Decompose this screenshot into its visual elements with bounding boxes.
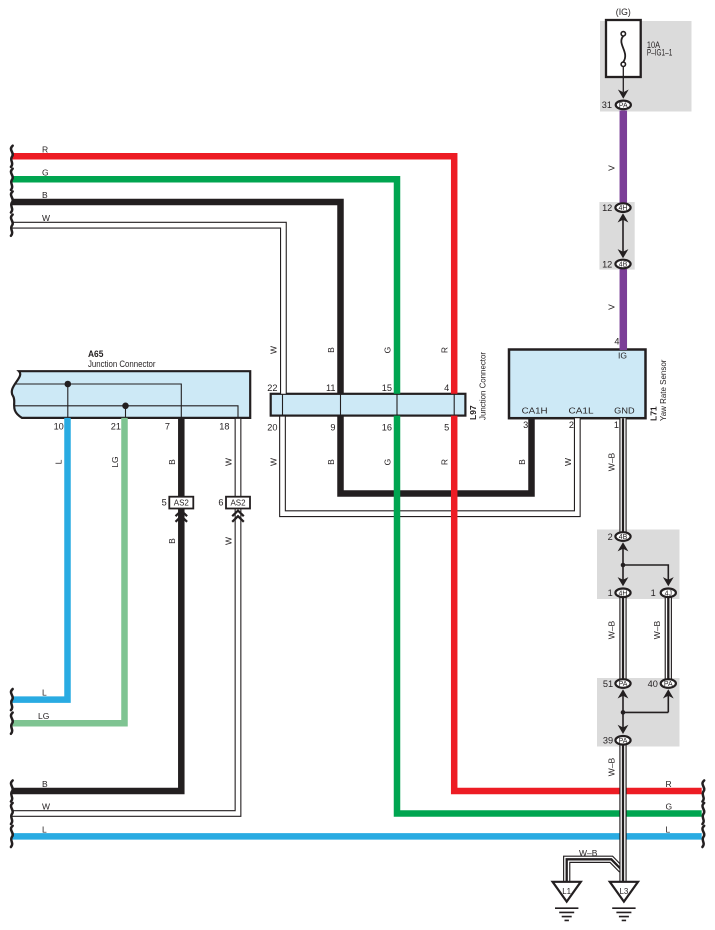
svg-text:B: B xyxy=(42,779,48,789)
svg-text:IG: IG xyxy=(618,351,627,361)
svg-text:15: 15 xyxy=(382,383,392,393)
svg-text:L: L xyxy=(42,824,47,834)
svg-text:20: 20 xyxy=(267,423,277,433)
svg-text:1: 1 xyxy=(608,588,613,598)
svg-text:9: 9 xyxy=(330,423,335,433)
svg-text:G: G xyxy=(42,167,49,177)
svg-text:W–B: W–B xyxy=(607,620,617,639)
svg-text:W–B: W–B xyxy=(607,757,617,776)
svg-text:GND: GND xyxy=(614,406,634,416)
svg-text:A65: A65 xyxy=(88,349,103,359)
svg-text:W: W xyxy=(269,346,279,354)
svg-text:4H: 4H xyxy=(619,590,628,597)
svg-text:L71: L71 xyxy=(649,406,659,421)
svg-text:W: W xyxy=(224,537,234,545)
svg-text:W–B: W–B xyxy=(579,848,598,858)
svg-text:L1: L1 xyxy=(562,887,571,896)
svg-text:4H: 4H xyxy=(619,205,628,212)
svg-text:PA: PA xyxy=(619,102,628,109)
svg-text:Junction Connector: Junction Connector xyxy=(478,352,488,420)
svg-text:L97: L97 xyxy=(468,405,478,420)
svg-text:4J: 4J xyxy=(665,590,672,597)
svg-text:7: 7 xyxy=(165,422,170,432)
svg-text:G: G xyxy=(666,802,673,812)
svg-text:PA: PA xyxy=(664,681,673,688)
svg-text:R: R xyxy=(440,347,450,353)
svg-text:W: W xyxy=(42,802,50,812)
svg-text:4: 4 xyxy=(444,383,449,393)
svg-text:PA: PA xyxy=(619,738,628,745)
svg-text:G: G xyxy=(383,459,393,466)
svg-text:V: V xyxy=(607,165,617,171)
svg-text:P–IG1–1: P–IG1–1 xyxy=(647,48,672,58)
svg-text:1: 1 xyxy=(614,420,619,430)
svg-text:B: B xyxy=(517,459,527,465)
svg-text:11: 11 xyxy=(326,383,336,393)
svg-text:W–B: W–B xyxy=(652,620,662,639)
svg-text:3: 3 xyxy=(523,420,528,430)
svg-text:22: 22 xyxy=(267,383,277,393)
svg-text:B: B xyxy=(42,190,48,200)
svg-text:51: 51 xyxy=(603,679,613,689)
svg-text:B: B xyxy=(167,459,177,465)
svg-text:W: W xyxy=(563,458,573,466)
svg-text:B: B xyxy=(326,459,336,465)
svg-text:LG: LG xyxy=(38,711,49,721)
svg-text:W: W xyxy=(42,213,50,223)
svg-text:6: 6 xyxy=(218,498,223,508)
svg-text:R: R xyxy=(440,459,450,465)
svg-text:G: G xyxy=(383,347,393,354)
svg-text:Yaw Rate Sensor: Yaw Rate Sensor xyxy=(658,359,668,421)
svg-text:2: 2 xyxy=(608,532,613,542)
svg-text:CA1L: CA1L xyxy=(569,406,594,416)
svg-text:5: 5 xyxy=(162,498,167,508)
svg-text:PA: PA xyxy=(619,681,628,688)
svg-text:10: 10 xyxy=(54,422,64,432)
svg-text:V: V xyxy=(607,304,617,310)
svg-text:Junction Connector: Junction Connector xyxy=(88,359,156,369)
svg-text:16: 16 xyxy=(382,423,392,433)
svg-text:W: W xyxy=(224,458,234,466)
svg-text:W: W xyxy=(269,458,279,466)
svg-text:(IG): (IG) xyxy=(616,7,631,17)
svg-text:AS2: AS2 xyxy=(230,499,246,508)
svg-text:R: R xyxy=(666,779,672,789)
svg-text:L: L xyxy=(54,459,64,464)
svg-text:B: B xyxy=(326,347,336,353)
svg-text:LG: LG xyxy=(110,456,120,467)
svg-text:4: 4 xyxy=(614,336,619,346)
svg-text:31: 31 xyxy=(602,100,612,110)
svg-text:L3: L3 xyxy=(619,887,628,896)
svg-text:39: 39 xyxy=(603,736,613,746)
svg-text:12: 12 xyxy=(602,203,612,213)
svg-text:CA1H: CA1H xyxy=(522,406,548,416)
svg-text:1: 1 xyxy=(651,588,656,598)
svg-text:AS2: AS2 xyxy=(174,499,190,508)
svg-text:21: 21 xyxy=(111,422,121,432)
svg-text:L: L xyxy=(666,824,671,834)
svg-text:B: B xyxy=(167,538,177,544)
svg-text:12: 12 xyxy=(602,259,612,269)
svg-text:18: 18 xyxy=(219,422,229,432)
svg-text:4B: 4B xyxy=(619,262,628,269)
svg-text:L: L xyxy=(42,688,47,698)
svg-text:5: 5 xyxy=(444,423,449,433)
svg-text:40: 40 xyxy=(648,679,658,689)
svg-text:W–B: W–B xyxy=(607,452,617,471)
svg-text:4B: 4B xyxy=(619,534,628,541)
svg-text:R: R xyxy=(42,144,48,154)
svg-text:2: 2 xyxy=(569,420,574,430)
